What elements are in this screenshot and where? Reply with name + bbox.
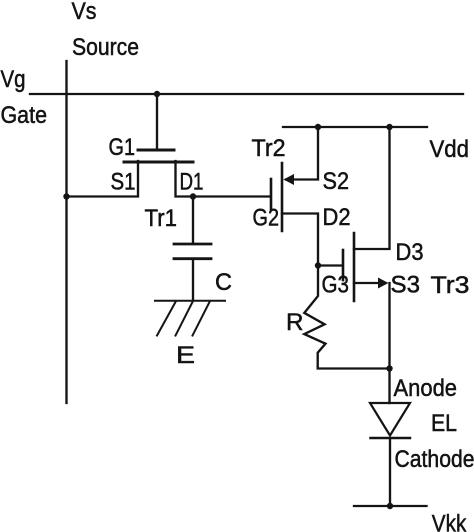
diode EL triangle: [370, 403, 410, 436]
svg-text:Source: Source: [72, 34, 139, 61]
capacitor C bottom plate: [174, 257, 211, 260]
junction cathode and Vkk rail: [387, 503, 393, 509]
ground E hatch 1: [157, 302, 176, 336]
wire S2 lead to Vdd: [286, 127, 318, 180]
svg-text:Tr2: Tr2: [252, 135, 286, 162]
svg-text:Tr3: Tr3: [431, 272, 470, 299]
node D1 junction: [190, 193, 196, 199]
svg-text:D1: D1: [180, 169, 204, 196]
wire cathode lead: [389, 439, 391, 506]
svg-text:Vkk: Vkk: [432, 511, 467, 532]
svg-text:Anode: Anode: [394, 375, 458, 402]
wire gate line horizontal Vg: [30, 93, 463, 95]
wire Vdd rail: [283, 126, 427, 128]
wire D3 lead to Vdd: [354, 127, 390, 249]
wire S3 down to anode node: [388, 283, 390, 369]
svg-text:E: E: [176, 342, 195, 369]
capacitor C top plate: [174, 243, 211, 246]
wire D1 to Tr2 gate: [176, 161, 271, 197]
junction Vdd and D3: [386, 124, 392, 130]
wire D2 lead down to node: [282, 214, 318, 266]
wire capacitor to ground: [192, 259, 194, 300]
svg-text:S1: S1: [111, 169, 136, 196]
transistor Tr2 gate bar: [270, 179, 273, 210]
resistor R: [304, 266, 389, 369]
svg-text:Gate: Gate: [1, 102, 48, 129]
junction D2 R and G3: [315, 262, 321, 268]
junction S1 and source line: [63, 193, 69, 199]
svg-text:Vs: Vs: [72, 0, 97, 25]
transistor Tr2 channel bar: [281, 163, 284, 231]
svg-text:C: C: [215, 269, 232, 296]
svg-text:G3: G3: [322, 272, 350, 299]
ground E hatch 2: [176, 302, 193, 336]
junction R and anode: [386, 365, 392, 371]
wire source line vertical Vs: [65, 61, 67, 403]
svg-text:Vdd: Vdd: [430, 136, 470, 163]
svg-text:D3: D3: [396, 239, 424, 266]
ground E hatch 3: [193, 302, 210, 336]
arrow S3: [378, 278, 389, 289]
junction Vdd and S2: [315, 124, 321, 130]
transistor Tr3 channel bar: [353, 233, 356, 301]
wire G3 lead: [318, 264, 342, 266]
wire anode lead: [388, 369, 390, 403]
wire Tr1 gate lead: [156, 94, 158, 149]
svg-text:Cathode: Cathode: [395, 446, 474, 473]
junction gate line and Tr1 gate: [154, 91, 160, 97]
transistor Tr1 gate bar: [138, 149, 174, 152]
wire S3 lead: [354, 282, 381, 284]
transistor Tr1 channel bar: [124, 161, 193, 164]
wire node D1 to capacitor: [192, 197, 194, 244]
diode EL cathode bar: [371, 437, 411, 440]
svg-text:D2: D2: [323, 204, 351, 231]
svg-text:S2: S2: [323, 168, 350, 195]
svg-text:G2: G2: [253, 205, 280, 232]
svg-text:EL: EL: [431, 410, 457, 437]
svg-text:Vg: Vg: [1, 66, 26, 93]
arrow S2: [284, 174, 295, 185]
ground E bar: [155, 300, 225, 302]
wire S1 to source line: [67, 161, 139, 197]
transistor Tr3 gate bar: [342, 250, 345, 280]
wire Vkk rail: [354, 505, 427, 507]
svg-text:S3: S3: [391, 272, 421, 299]
svg-text:R: R: [286, 309, 304, 336]
svg-text:G1: G1: [109, 134, 136, 161]
svg-text:Tr1: Tr1: [145, 205, 178, 232]
